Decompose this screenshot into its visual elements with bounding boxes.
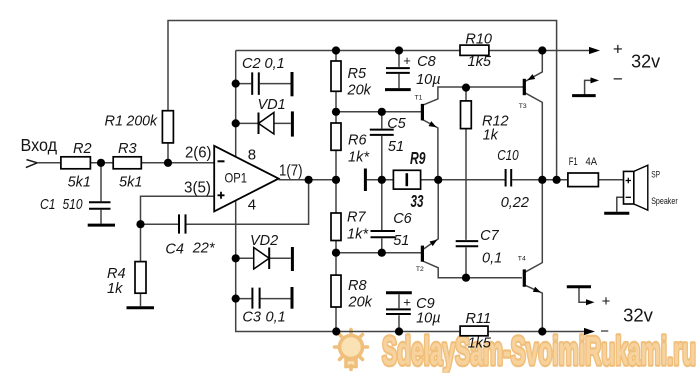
resistor R12: [461, 101, 472, 129]
ground bar speaker: [604, 212, 629, 215]
svg-text:T4: T4: [518, 255, 526, 262]
ground bar VD2: [291, 247, 294, 271]
fuse F1: [568, 173, 599, 187]
svg-text:T1: T1: [415, 95, 423, 102]
capacitor C6 plates: [371, 231, 396, 237]
svg-text:1k*: 1k*: [348, 149, 370, 165]
junction dot C5/C6 output: [378, 176, 386, 184]
wire: C10 to F1: [512, 179, 568, 181]
junction dot R1/input: [164, 159, 172, 167]
capacitor C5 plates: [370, 130, 394, 135]
junction dot R5/R6 T1 base: [332, 108, 340, 116]
capacitor C8 plates: [386, 68, 410, 73]
wire: R8 connections: [335, 253, 337, 332]
wire: R5 top connection: [335, 51, 337, 62]
svg-text:200k: 200k: [126, 114, 158, 130]
wire: R1 bottom to input row: [167, 143, 169, 163]
svg-text:1(7): 1(7): [279, 162, 303, 179]
svg-text:0,1: 0,1: [265, 56, 285, 72]
wire: top minus terminal symbol: [585, 80, 592, 95]
junction dot C4 feedback node: [305, 176, 313, 184]
transistor T3 emitter arrow: [526, 74, 535, 83]
wire: R7 connections: [335, 180, 337, 253]
wire: F1 to speaker: [598, 179, 623, 181]
junction dot T3 rail: [538, 46, 546, 54]
arrow top minus terminal: [591, 77, 600, 83]
svg-text:1k: 1k: [107, 281, 123, 297]
wire: T1 emitter to output row: [422, 120, 438, 180]
wire: VD2 row: [236, 257, 291, 259]
svg-text:SdelaySam-SvoimiRukami.ru: SdelaySam-SvoimiRukami.ru: [382, 330, 696, 373]
resistor R3: [113, 157, 141, 169]
op-amp minus input sign: [218, 160, 225, 162]
speaker SP horn: [634, 165, 648, 210]
svg-text:8: 8: [248, 146, 256, 163]
resistor R9 inner bar: [405, 173, 408, 186]
junction dot R8 rail: [332, 327, 340, 335]
svg-text:R4: R4: [107, 266, 126, 282]
diode VD2 triangle: [254, 248, 270, 270]
capacitor C4 plates: [179, 214, 186, 233]
svg-text:5k1: 5k1: [119, 174, 142, 190]
capacitor C2 plates: [252, 72, 259, 95]
wire: C7 bottom to T2 emitter row: [465, 247, 467, 277]
junction dot feedback output: [553, 176, 561, 184]
wire: feedback line from output to R1 (top): [168, 21, 557, 180]
wire: C3 row: [236, 298, 291, 300]
wire: T2 collector to output row: [423, 180, 438, 249]
svg-text:R6: R6: [348, 132, 367, 148]
resistor R10: [460, 45, 489, 55]
svg-text:−: −: [600, 323, 609, 340]
wire: op-amp pin 4 supply drop and -32v bottom rail: [236, 200, 585, 332]
resistor R9: [393, 170, 420, 189]
transistor T3 base bar: [523, 79, 526, 95]
svg-text:C1: C1: [40, 197, 56, 213]
svg-text:4: 4: [248, 196, 256, 213]
transistor T4 emitter arrow: [533, 287, 542, 295]
ground bar top minus terminal: [572, 94, 596, 97]
svg-text:51: 51: [393, 233, 409, 249]
junction dot C2: [232, 80, 240, 88]
wire: C4 row to output: [141, 180, 309, 224]
svg-text:T3: T3: [519, 103, 527, 110]
svg-text:R1: R1: [105, 114, 124, 130]
wire: R4 vertical: [140, 224, 142, 306]
junction dot VD2: [232, 254, 240, 262]
transistor T4 base bar: [523, 269, 526, 286]
wire: T1 collector row to T3 base: [422, 87, 524, 105]
svg-text:+: +: [602, 293, 611, 310]
resistor R1: [162, 111, 173, 143]
wire: C2 row: [236, 83, 291, 85]
junction dot C9 rail: [395, 327, 403, 335]
wire: R6 connections: [335, 112, 337, 180]
wire: T2 emitter row to T4 base: [423, 261, 522, 278]
svg-text:51: 51: [388, 139, 404, 155]
ground bar bottom plus terminal: [567, 285, 591, 288]
svg-text:R3: R3: [118, 141, 137, 157]
capacitor C1 plates: [89, 202, 111, 208]
resistor R2: [61, 157, 91, 169]
svg-text:Вход: Вход: [21, 135, 58, 155]
capacitor C10 plates: [506, 169, 512, 187]
svg-text:4A: 4A: [586, 156, 598, 168]
svg-text:C2: C2: [242, 56, 261, 72]
wire: C5 vertical: [381, 112, 383, 180]
junction dot R12 top: [462, 84, 470, 92]
svg-text:1k*: 1k*: [347, 227, 369, 243]
op-amp OP1: [214, 146, 278, 212]
wire: R12 stub: [465, 87, 467, 101]
wire: C8 vertical: [398, 51, 400, 89]
capacitor C9 plates: [386, 309, 411, 314]
svg-text:33: 33: [411, 191, 424, 211]
svg-text:0,22: 0,22: [501, 195, 529, 211]
junction dot C6 T2 base: [378, 249, 386, 257]
ground bar VD1: [291, 111, 294, 136]
junction dot T3/T4 output: [538, 176, 546, 184]
junction dot C1/input: [97, 159, 105, 167]
svg-text:R5: R5: [348, 66, 367, 82]
ground bar at R9 input: [364, 169, 367, 192]
wire: op-amp pin 3(5) input: [141, 196, 215, 224]
wire: C9 vertical: [398, 294, 400, 331]
wire: op-amp output row: [279, 179, 336, 181]
input arrow chevron: [26, 160, 38, 168]
wire: T4 collector to output row: [525, 180, 542, 272]
resistor R4: [135, 262, 146, 294]
svg-text:20k: 20k: [348, 295, 373, 311]
svg-text:32v: 32v: [623, 305, 654, 326]
arrow -32v rail: [584, 328, 595, 335]
svg-text:C6: C6: [393, 211, 412, 227]
transistor T2 collector-side arrow: [430, 237, 439, 246]
arrow +32v rail: [589, 47, 600, 54]
junction dot R4/C4/pin3 node: [136, 220, 144, 228]
svg-text:22*: 22*: [192, 241, 216, 257]
svg-text:C9: C9: [416, 296, 435, 312]
svg-text:20k: 20k: [347, 83, 372, 99]
svg-text:C5: C5: [387, 116, 406, 132]
wire: T3 emitter to +rail: [525, 51, 542, 82]
wire: R5 bottom / T1 base node: [335, 91, 337, 112]
ground bar C3: [291, 287, 294, 309]
wire: R9 ground bar to C5/C6 node: [367, 179, 394, 181]
svg-text:+: +: [613, 40, 623, 59]
wire: T2 base row: [336, 252, 422, 254]
resistor R7: [331, 213, 341, 241]
svg-text:1k5: 1k5: [468, 54, 492, 70]
svg-text:2(6): 2(6): [185, 144, 212, 161]
junction dot R5 rail: [332, 46, 340, 54]
transistor T2 base bar: [421, 246, 424, 262]
wire: R12 bottom to C7: [465, 129, 467, 240]
arrow bottom plus terminal: [586, 299, 595, 305]
transistor T1 emitter arrow: [429, 121, 438, 130]
svg-text:F1: F1: [569, 156, 578, 168]
resistor R11: [460, 326, 488, 336]
svg-text:C3: C3: [242, 310, 261, 326]
op-amp plus input sign: [218, 192, 225, 199]
wire: input row: [38, 162, 215, 164]
wire: R9 to C10 output row: [421, 179, 505, 181]
svg-text:C8: C8: [417, 54, 436, 70]
junction dot C7 T2 emitter row: [462, 274, 470, 282]
wire: speaker minus to ground: [617, 197, 624, 211]
svg-text:5k1: 5k1: [68, 174, 91, 190]
junction dot C5 T1 base: [378, 108, 386, 116]
resistor R6: [331, 123, 341, 150]
junction dot R6/R7 output: [332, 176, 340, 184]
svg-text:R8: R8: [348, 278, 367, 294]
svg-text:1k5: 1k5: [468, 336, 492, 352]
svg-text:R2: R2: [73, 141, 92, 157]
svg-text:510: 510: [63, 197, 83, 213]
svg-text:C4: C4: [165, 242, 184, 258]
capacitor C3 plates: [252, 288, 259, 309]
svg-text:32v: 32v: [631, 52, 660, 72]
svg-text:OP1: OP1: [225, 169, 248, 185]
wire: C1 vertical: [100, 163, 102, 224]
svg-text:10µ: 10µ: [416, 311, 440, 327]
svg-text:VD1: VD1: [258, 97, 286, 113]
speaker plus sign: [626, 178, 631, 183]
wire: bottom plus terminal symbol: [579, 287, 587, 303]
svg-text:−: −: [613, 69, 623, 88]
speaker minus sign: [626, 196, 631, 198]
diode VD2 cathode bar: [268, 248, 270, 270]
junction dot C8 rail: [395, 46, 403, 54]
wire: T4 emitter to -rail: [525, 285, 542, 331]
wire: C6 vertical: [381, 180, 383, 253]
junction dot T1/T2 output: [434, 176, 442, 184]
svg-text:Speaker: Speaker: [651, 196, 678, 207]
svg-text:SP: SP: [651, 169, 660, 180]
svg-text:C10: C10: [497, 148, 519, 164]
wire: T1 base row: [336, 111, 421, 113]
wire: +32v top rail: [236, 50, 590, 52]
wire: VD1 row: [236, 122, 291, 124]
svg-text:R10: R10: [465, 31, 492, 47]
junction dot R7/R8 T2 base: [332, 249, 340, 257]
ground bar C8: [385, 88, 411, 91]
diode VD1 cathode bar: [258, 113, 260, 135]
ground bar C1: [88, 224, 115, 227]
ground bar R4: [127, 306, 155, 309]
junction dot T4 rail: [538, 327, 546, 335]
ground bar C9: [386, 291, 412, 294]
watermark lightbulb logo: [335, 330, 368, 370]
svg-text:VD2: VD2: [250, 233, 278, 249]
svg-text:0,1: 0,1: [482, 251, 502, 267]
svg-text:1k: 1k: [483, 128, 499, 144]
wire: op-amp pin 8 supply drop: [235, 51, 237, 159]
wire: T3 collector to output row: [525, 93, 542, 180]
svg-text:C7: C7: [480, 228, 499, 244]
transistor T1 base bar: [421, 104, 424, 121]
resistor R8: [331, 275, 341, 307]
svg-text:R9: R9: [410, 148, 426, 168]
speaker SP body: [624, 171, 634, 204]
svg-text:R11: R11: [466, 311, 492, 327]
svg-text:+: +: [403, 53, 411, 68]
svg-text:R7: R7: [347, 210, 366, 226]
diode VD1 triangle: [259, 113, 274, 135]
junction dot C3: [232, 295, 240, 303]
svg-text:+: +: [403, 295, 411, 310]
capacitor C7 plates: [456, 241, 479, 246]
ground bar C2: [291, 72, 294, 96]
resistor R5: [331, 61, 341, 91]
svg-text:0,1: 0,1: [266, 310, 286, 326]
junction dot VD1: [232, 119, 240, 127]
svg-text:T2: T2: [416, 266, 424, 273]
svg-text:10µ: 10µ: [416, 72, 440, 88]
svg-text:3(5): 3(5): [184, 180, 211, 197]
